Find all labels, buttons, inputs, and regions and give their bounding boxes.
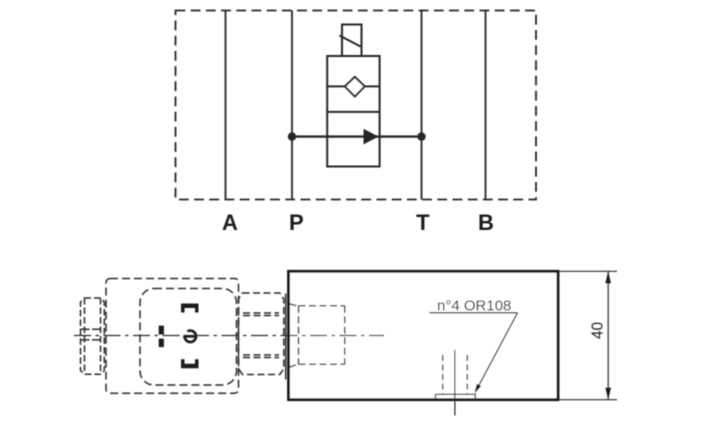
svg-text:B: B xyxy=(478,210,494,235)
svg-text:T: T xyxy=(416,210,430,235)
flow arrow xyxy=(364,129,379,145)
svg-text:n°4 OR108: n°4 OR108 xyxy=(437,297,511,314)
check-valve seat line xyxy=(327,85,379,87)
leader arrowhead xyxy=(474,384,481,394)
connector pin slot top xyxy=(181,304,199,313)
O-ring groove (hidden, dashed) xyxy=(443,355,467,394)
earth pin marker (turned e) xyxy=(184,331,196,342)
cartridge cavity (hidden, dashed) xyxy=(290,304,345,367)
dimension arrow top xyxy=(605,271,611,283)
svg-text:A: A xyxy=(222,210,238,235)
connector face (dashed) xyxy=(140,289,237,386)
check valve diamond xyxy=(345,77,365,97)
polarity mark upper xyxy=(159,326,164,335)
polarity mark lower xyxy=(159,339,164,348)
coil outline (dashed) xyxy=(106,279,239,394)
valve divider line xyxy=(327,111,379,113)
leader line xyxy=(478,313,518,388)
valve body block xyxy=(289,271,559,399)
port line A xyxy=(225,11,227,200)
extension line top xyxy=(560,270,618,272)
solenoid diagonal stroke xyxy=(340,36,361,47)
flow line P-T xyxy=(292,135,422,137)
manifold envelope (dashed) xyxy=(176,11,537,200)
O-ring seat xyxy=(436,394,476,400)
junction dot P xyxy=(288,132,296,140)
svg-text:40: 40 xyxy=(590,322,607,340)
port line B xyxy=(485,11,487,200)
centerline (dash-dot axis) xyxy=(74,335,384,337)
retaining washer line xyxy=(285,294,287,380)
solenoid box xyxy=(342,25,362,57)
hex nut (dashed) xyxy=(239,293,284,375)
dimension line xyxy=(607,271,609,399)
extension line bottom xyxy=(560,399,618,401)
valve body xyxy=(327,56,379,167)
connector pin slot bottom xyxy=(181,359,199,368)
port line T xyxy=(421,11,423,200)
svg-text:P: P xyxy=(289,210,304,235)
leader underline xyxy=(430,312,518,314)
end nut (dashed) xyxy=(81,298,105,374)
port line P xyxy=(291,11,293,200)
junction dot T xyxy=(417,132,425,140)
port axis xyxy=(454,350,456,416)
dimension arrow bottom xyxy=(605,388,611,400)
